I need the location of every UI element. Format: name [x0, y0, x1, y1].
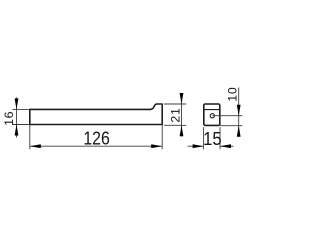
dimension 16: arrow top [15, 98, 19, 109]
svg-text:15: 15 [203, 129, 222, 149]
svg-text:16: 16 [2, 111, 16, 126]
svg-text:10: 10 [225, 87, 239, 102]
dimension 10: extension line bottom [220, 125, 243, 127]
dimension 16: extension line top [13, 108, 29, 110]
part end-view rectangle [204, 104, 220, 125]
dimension 15: dimension line stub left [188, 145, 204, 147]
dimension 15: extension line right [219, 127, 221, 149]
dimension 126: arrow left [30, 144, 41, 148]
dimension 15: arrow left [193, 144, 204, 148]
dimension 10: dimension line [238, 88, 240, 136]
dimension 21: arrow top [180, 93, 184, 104]
dimension 10: extension line from hole centre [212, 115, 242, 117]
dimension 21: extension line top [164, 103, 186, 105]
end-view step line [204, 109, 220, 111]
dimension 21: arrow bottom [180, 125, 184, 136]
dimension 126: extension line left [29, 125, 31, 150]
svg-text:126: 126 [83, 128, 110, 149]
dimension 15: dimension line stub right [220, 145, 234, 147]
dimension 10: arrow bottom [237, 126, 241, 137]
svg-text:21: 21 [168, 107, 182, 122]
dimension 15: arrow right [220, 144, 231, 148]
dimension 16: arrow bottom [15, 125, 19, 136]
end-view hole [210, 114, 214, 118]
dimension 126: dimension line [30, 145, 162, 147]
dimension 126: extension line right [161, 125, 163, 150]
dimension 21: extension line bottom [164, 124, 186, 126]
dimension 16: dimension line [16, 98, 18, 138]
dimension 21: dimension line [181, 95, 183, 137]
dimension 15: extension line left [203, 127, 205, 149]
dimension 16: extension line bottom [13, 124, 29, 126]
dimension 10: arrow top [237, 105, 241, 116]
dimension 126: arrow right [151, 144, 162, 148]
part side-view profile [30, 104, 162, 125]
